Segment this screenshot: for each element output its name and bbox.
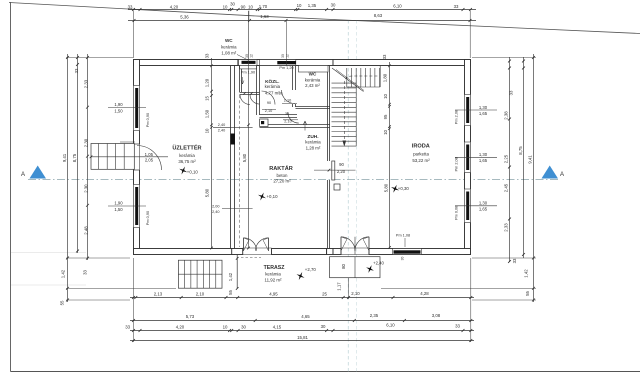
- svg-text:4,65: 4,65: [301, 314, 310, 319]
- svg-text:11,92 m²: 11,92 m²: [264, 277, 282, 282]
- window left W2: [133, 185, 140, 228]
- svg-text:4,15: 4,15: [273, 324, 282, 329]
- stair walk line: [344, 76, 378, 144]
- terrace dashed edge under door: [241, 256, 261, 258]
- top window 90: [239, 60, 258, 65]
- outer wall bottom 30cm pier: [327, 249, 333, 255]
- svg-text:10: 10: [248, 4, 253, 9]
- site boundary west line: [10, 2, 12, 372]
- top window 170: [260, 60, 296, 65]
- svg-text:5,80: 5,80: [204, 188, 209, 197]
- svg-text:5,80: 5,80: [384, 183, 389, 192]
- small box below door: [334, 184, 340, 190]
- svg-text:kerámia: kerámia: [265, 272, 281, 277]
- svg-text:Pm 0,90: Pm 0,90: [146, 113, 150, 127]
- svg-text:33: 33: [454, 4, 459, 9]
- svg-text:2,35: 2,35: [370, 313, 379, 318]
- svg-text:90: 90: [241, 4, 246, 9]
- svg-text:ÜZLETTÉR: ÜZLETTÉR: [172, 143, 201, 151]
- svg-text:Pm 1,20: Pm 1,20: [279, 66, 293, 70]
- svg-text:2,40: 2,40: [218, 129, 225, 133]
- svg-text:30: 30: [245, 54, 249, 58]
- svg-text:1,08 m²: 1,08 m²: [221, 50, 236, 55]
- top dim row 2: [128, 20, 476, 22]
- door sill stair hall: [341, 247, 369, 249]
- iroda interior chain: [389, 62, 391, 248]
- svg-text:36,75 m²: 36,75 m²: [178, 159, 196, 164]
- door sill raktar terrace: [243, 247, 272, 249]
- entrance door arc: [137, 146, 162, 171]
- svg-text:12: 12: [250, 54, 254, 58]
- faint projection line 2: [11, 284, 86, 286]
- svg-text:kerámia: kerámia: [179, 153, 195, 158]
- svg-text:1,30: 1,30: [479, 152, 488, 157]
- door arc wc: [282, 90, 296, 104]
- window right W3: [464, 189, 471, 223]
- svg-text:1,42: 1,42: [228, 272, 233, 281]
- svg-text:Pm 2,08: Pm 2,08: [455, 157, 459, 171]
- bottom dim row 4: [130, 340, 474, 342]
- svg-text:27,20 m²: 27,20 m²: [273, 179, 291, 184]
- site boundary south line: [11, 371, 640, 373]
- svg-text:+2,40: +2,40: [373, 260, 384, 265]
- svg-text:+0,10: +0,10: [187, 170, 199, 175]
- svg-text:33: 33: [83, 270, 88, 275]
- stair hall double door: [341, 237, 355, 251]
- svg-text:1,90: 1,90: [114, 102, 123, 107]
- svg-text:2,48: 2,48: [84, 226, 89, 235]
- svg-text:1,35: 1,35: [308, 3, 317, 8]
- entrance door opening gap: [133, 144, 140, 170]
- svg-text:33: 33: [205, 53, 210, 58]
- svg-text:2,33: 2,33: [504, 223, 509, 232]
- svg-text:kerámia: kerámia: [305, 77, 321, 82]
- svg-text:+0,10: +0,10: [267, 194, 279, 199]
- svg-text:4,28: 4,28: [420, 291, 429, 296]
- svg-text:1,80: 1,80: [382, 73, 387, 82]
- svg-text:2,05: 2,05: [145, 158, 154, 163]
- svg-text:8,63: 8,63: [374, 13, 383, 18]
- svg-text:Pm 1,90: Pm 1,90: [241, 71, 255, 75]
- svg-text:TERASZ: TERASZ: [264, 265, 286, 271]
- svg-text:1,65: 1,65: [479, 158, 488, 163]
- svg-text:55: 55: [60, 300, 65, 305]
- svg-text:kerámia: kerámia: [221, 44, 237, 49]
- svg-text:9,41: 9,41: [528, 155, 533, 164]
- svg-text:Pm 0,90: Pm 0,90: [146, 211, 150, 225]
- top chain extension from window: [285, 21, 287, 66]
- window left W1: [133, 86, 140, 131]
- svg-text:6,10: 6,10: [393, 3, 402, 8]
- bottom dim row 2: [130, 320, 474, 322]
- svg-text:RAKTÁR: RAKTÁR: [269, 165, 293, 172]
- svg-text:2,38: 2,38: [504, 111, 509, 120]
- svg-text:1,20: 1,20: [204, 78, 209, 87]
- svg-text:IRODA: IRODA: [412, 143, 430, 149]
- svg-text:33: 33: [128, 4, 133, 9]
- upper wc right wall: [256, 66, 258, 116]
- partition uzletter/middle: [230, 66, 232, 249]
- svg-text:4,77 m²: 4,77 m²: [265, 91, 280, 96]
- svg-text:2,25: 2,25: [504, 154, 509, 163]
- svg-text:1,30: 1,30: [479, 105, 488, 110]
- svg-text:38: 38: [285, 112, 289, 116]
- partition pier chimney black: [231, 134, 236, 145]
- window right W2: [464, 142, 471, 173]
- faint projection line 1: [11, 252, 86, 254]
- right chain inner: [509, 57, 511, 262]
- svg-text:kerámia: kerámia: [305, 139, 321, 144]
- svg-text:kerámia: kerámia: [265, 84, 281, 89]
- svg-text:2,13: 2,13: [154, 291, 163, 296]
- svg-text:15: 15: [204, 96, 209, 101]
- svg-text:+2,70: +2,70: [305, 267, 317, 272]
- svg-text:5,36: 5,36: [180, 14, 189, 19]
- top dim row 1: [128, 9, 476, 11]
- section marker A left: [30, 166, 47, 179]
- partition raktar/stairhall lower: [327, 180, 329, 249]
- svg-text:80: 80: [341, 264, 346, 269]
- svg-text:1,50: 1,50: [114, 207, 123, 212]
- raktar terrace double door: [244, 238, 257, 251]
- right chain 8,75: [523, 57, 525, 258]
- svg-text:beton: beton: [277, 173, 289, 178]
- svg-text:parketta: parketta: [413, 151, 429, 156]
- right extension lines: [472, 57, 536, 59]
- upper wc left wall: [239, 66, 241, 93]
- svg-text:2,33: 2,33: [84, 79, 89, 88]
- svg-text:90: 90: [339, 162, 344, 167]
- svg-text:8,75: 8,75: [518, 146, 523, 155]
- svg-text:WC: WC: [225, 38, 233, 43]
- outer wall top-left segment: [134, 60, 239, 66]
- svg-text:4,20: 4,20: [170, 4, 179, 9]
- upper wc window sill box: [240, 66, 257, 69]
- svg-text:5,80: 5,80: [242, 153, 247, 162]
- entrance outside steps: [91, 144, 134, 170]
- svg-text:10: 10: [223, 4, 228, 9]
- outer wall bottom uzletter: [134, 249, 235, 255]
- svg-text:1,63: 1,63: [260, 14, 269, 19]
- door arc lobby small: [240, 95, 250, 105]
- svg-text:A: A: [21, 172, 25, 178]
- svg-text:Pm 1,08: Pm 1,08: [396, 234, 410, 238]
- svg-text:5,73: 5,73: [186, 314, 195, 319]
- svg-text:90: 90: [267, 101, 271, 105]
- outer wall bottom raktar (door opening cut later): [272, 249, 327, 255]
- svg-text:2,10: 2,10: [196, 291, 205, 296]
- wc bottom wall: [296, 106, 331, 108]
- svg-text:1,28 m²: 1,28 m²: [306, 145, 321, 150]
- vertical CAD guide line 1: [347, 20, 349, 374]
- left extension lines: [66, 57, 133, 59]
- svg-text:30: 30: [230, 1, 235, 6]
- outer wall top middle segment: [238, 60, 333, 66]
- kozl bottom wall: [260, 114, 298, 116]
- svg-text:1,50: 1,50: [114, 108, 123, 113]
- door arc kozl: [262, 91, 276, 105]
- svg-text:1,50: 1,50: [204, 109, 209, 118]
- stair upper flight treads: [346, 68, 348, 87]
- svg-text:53,22 m²: 53,22 m²: [412, 158, 430, 163]
- outer wall bottom stair hall + iroda: [333, 249, 341, 255]
- stair left flight treads: [332, 82, 357, 84]
- window right W3 labels: [455, 205, 497, 207]
- section bottom wall (raktar top): [260, 124, 331, 126]
- svg-text:12: 12: [286, 54, 290, 58]
- svg-text:1,05: 1,05: [145, 152, 154, 157]
- svg-text:2,10: 2,10: [351, 291, 360, 296]
- svg-text:1,90: 1,90: [114, 201, 123, 206]
- svg-text:30: 30: [281, 54, 285, 58]
- svg-text:33: 33: [509, 90, 514, 95]
- svg-text:1,42: 1,42: [524, 269, 529, 278]
- bottom dim row 1: [130, 297, 474, 299]
- svg-text:2,43 m²: 2,43 m²: [305, 83, 320, 88]
- svg-text:30: 30: [331, 3, 336, 8]
- svg-text:10: 10: [383, 94, 388, 99]
- terrace west edge: [236, 255, 238, 289]
- svg-text:4,20: 4,20: [176, 324, 185, 329]
- svg-text:95: 95: [383, 114, 388, 119]
- landing star: [366, 265, 374, 273]
- svg-text:1,70: 1,70: [259, 4, 268, 9]
- svg-text:WC: WC: [309, 72, 317, 77]
- svg-text:10: 10: [223, 324, 228, 329]
- wc right left wall: [292, 66, 294, 91]
- svg-text:4,95: 4,95: [269, 291, 278, 296]
- svg-text:2,30: 2,30: [84, 138, 89, 147]
- section line A-A: [28, 179, 558, 181]
- raktar interior chain: [248, 11, 250, 248]
- svg-text:10: 10: [383, 130, 388, 135]
- svg-text:9,41: 9,41: [62, 153, 67, 162]
- lintel label uzletter: [213, 126, 253, 128]
- dashed hidden line lobby: [239, 95, 241, 247]
- door leaf raktar-stairhall: [332, 161, 335, 180]
- landing by stair hall: [330, 257, 380, 278]
- svg-text:33: 33: [512, 258, 517, 263]
- window right W2 labels: [455, 156, 497, 158]
- svg-text:15,81: 15,81: [297, 335, 308, 340]
- door arc zuh: [288, 112, 299, 123]
- svg-text:2,00: 2,00: [212, 205, 219, 209]
- upper wc threshold: [240, 92, 260, 94]
- svg-text:2,30: 2,30: [84, 184, 89, 193]
- top extension lines: [133, 11, 135, 59]
- lintel label lobby: [222, 208, 253, 210]
- svg-text:10: 10: [204, 128, 209, 133]
- svg-text:10: 10: [297, 3, 302, 8]
- svg-text:2,40: 2,40: [212, 210, 219, 214]
- outer wall bottom stub west of terrace door: [232, 249, 243, 255]
- svg-text:55: 55: [228, 290, 233, 295]
- wc window sill box: [299, 66, 329, 73]
- svg-text:30: 30: [401, 257, 405, 261]
- svg-text:1,65: 1,65: [479, 111, 488, 116]
- svg-text:2,10: 2,10: [284, 98, 291, 102]
- chimney box: [260, 119, 268, 127]
- svg-text:6,10: 6,10: [386, 323, 395, 328]
- uzletter interior chain: [211, 58, 213, 248]
- door arc upper wc: [250, 95, 260, 105]
- vertical CAD guide line 2: [356, 20, 358, 374]
- svg-text:55: 55: [525, 291, 530, 296]
- svg-text:33: 33: [382, 54, 387, 59]
- outer wall right: [465, 60, 471, 255]
- svg-text:2,20: 2,20: [337, 169, 346, 174]
- left chain outer 9,41: [67, 54, 69, 302]
- svg-text:1,65: 1,65: [479, 207, 488, 212]
- site boundary sloped north line: [9, 3, 640, 34]
- svg-text:1,42: 1,42: [60, 269, 65, 278]
- window left W1 labels: [108, 107, 146, 109]
- svg-text:3,08: 3,08: [432, 313, 441, 318]
- svg-text:Pm 0,08: Pm 0,08: [455, 206, 459, 220]
- svg-text:1,17: 1,17: [336, 282, 341, 291]
- window right W1: [464, 95, 471, 126]
- left chain 2: [77, 54, 79, 253]
- svg-text:33: 33: [125, 324, 130, 329]
- left chain 3: [87, 54, 89, 260]
- svg-text:A: A: [560, 172, 564, 178]
- svg-text:2,45: 2,45: [504, 183, 509, 192]
- svg-text:1,30: 1,30: [479, 201, 488, 206]
- outer wall left: [134, 60, 140, 255]
- partition raktar/stairhall upper: [327, 66, 329, 162]
- svg-text:8,75: 8,75: [72, 153, 77, 162]
- svg-text:Pm 2,08: Pm 2,08: [455, 110, 459, 124]
- svg-text:30: 30: [321, 324, 326, 329]
- bottom extension lines: [133, 258, 135, 342]
- svg-text:+0,30: +0,30: [398, 186, 410, 191]
- svg-text:25: 25: [322, 291, 327, 296]
- right chain 9,41: [533, 54, 535, 302]
- terrace steps: [178, 260, 222, 288]
- svg-text:30: 30: [241, 324, 246, 329]
- entrance step center line: [91, 156, 168, 158]
- window left W2 labels: [108, 205, 146, 207]
- bottom dim row 3: [130, 330, 474, 332]
- section marker A right: [542, 166, 559, 179]
- iroda bottom window: [393, 249, 422, 254]
- outer wall top right segment (iroda): [333, 60, 471, 66]
- window right W1 labels: [455, 109, 497, 111]
- stair break line: [332, 68, 364, 92]
- svg-text:33: 33: [455, 324, 460, 329]
- svg-text:33: 33: [74, 68, 79, 73]
- svg-text:2,40: 2,40: [218, 123, 225, 127]
